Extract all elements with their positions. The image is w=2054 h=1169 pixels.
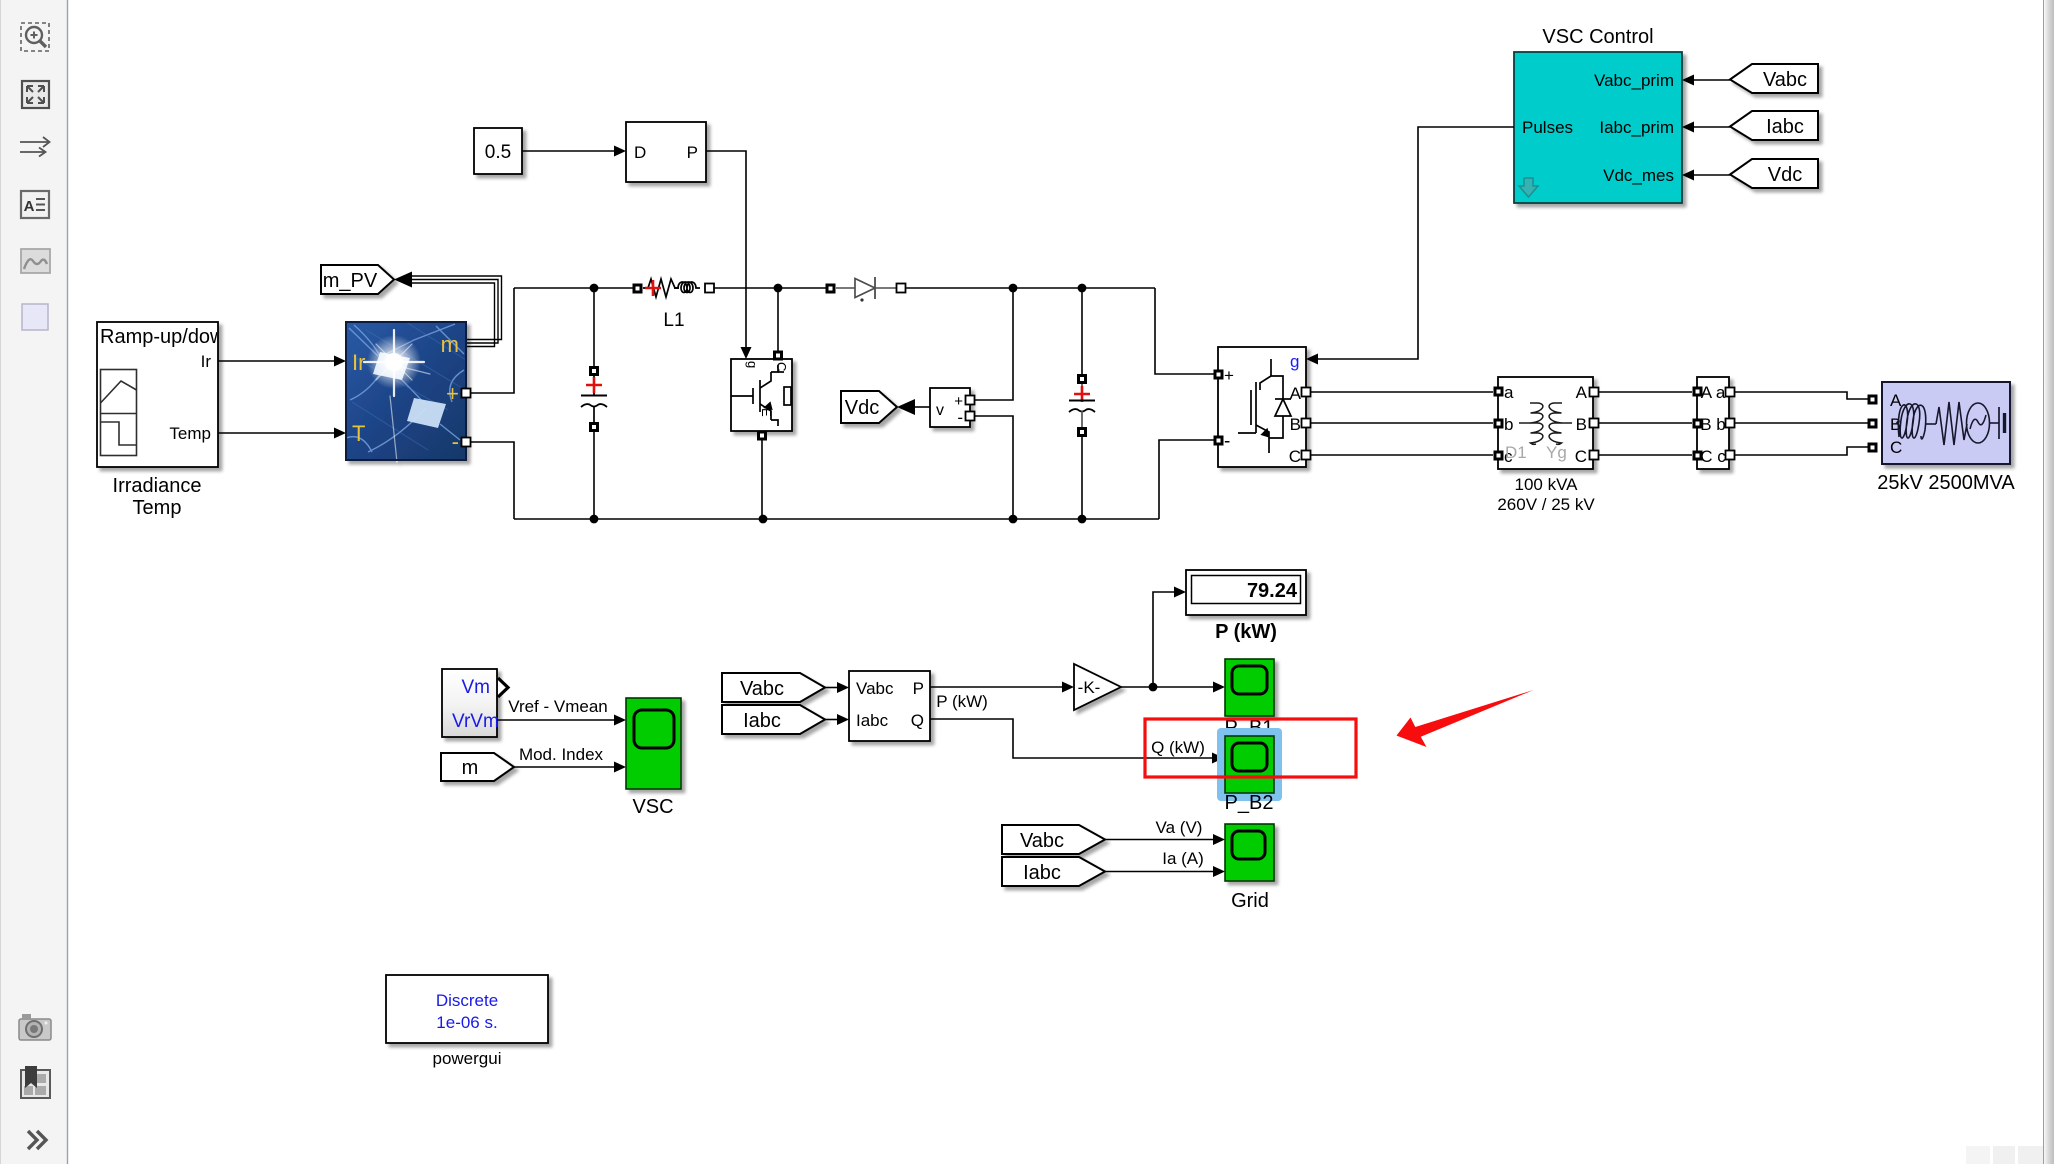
wire PV- down to bottom rail bbox=[471, 442, 515, 519]
svg-text:Vabc: Vabc bbox=[740, 678, 784, 700]
wire transformer B to meas B bbox=[1599, 422, 1693, 424]
wire v to Vdc tag bbox=[915, 406, 930, 408]
svg-text:P: P bbox=[913, 679, 924, 698]
svg-text:Vdc: Vdc bbox=[1768, 164, 1802, 186]
svg-text:Ramp-up/dow: Ramp-up/dow bbox=[100, 326, 225, 348]
svg-text:A: A bbox=[1890, 391, 1902, 410]
wire P to gain bbox=[930, 686, 1062, 688]
svg-text:Iabc: Iabc bbox=[743, 710, 781, 732]
port arrow into Vdc_mes bbox=[1682, 170, 1694, 181]
wire meas a to grid A bbox=[1735, 392, 1873, 399]
svg-text:P_B2: P_B2 bbox=[1225, 792, 1274, 814]
svg-text:v: v bbox=[936, 402, 944, 419]
svg-text:C c: C c bbox=[1700, 447, 1726, 466]
svg-text:Temp: Temp bbox=[133, 497, 182, 519]
svg-text:Iabc: Iabc bbox=[1766, 116, 1804, 138]
svg-text:100 kVA: 100 kVA bbox=[1514, 475, 1578, 494]
lens flare bbox=[367, 335, 421, 389]
left toolbar panel bbox=[0, 0, 68, 1164]
PQ measurement block bbox=[849, 671, 930, 741]
svg-text:g: g bbox=[745, 361, 760, 368]
top DC rail bbox=[514, 288, 1214, 374]
svg-text:Yg: Yg bbox=[1546, 443, 1567, 462]
svg-text:B: B bbox=[1576, 415, 1587, 434]
scope Grid bbox=[1225, 824, 1274, 881]
svg-text:P (kW): P (kW) bbox=[936, 692, 988, 711]
port arrow into Vabc_prim bbox=[1682, 75, 1694, 86]
subsystem D-P duty cycle bbox=[626, 122, 706, 182]
svg-text:C: C bbox=[1289, 447, 1301, 466]
wire Iabc to PQ bbox=[825, 719, 837, 721]
annotation red rectangle bbox=[1145, 719, 1356, 777]
three-phase VI measurement bbox=[1693, 377, 1735, 469]
svg-text:Iabc: Iabc bbox=[1023, 862, 1061, 884]
from tag Vdc (top right) bbox=[1730, 159, 1818, 188]
wire Pulses to inverter g bbox=[1318, 127, 1514, 359]
transformer T1 100kVA bbox=[1494, 377, 1599, 469]
subsystem U1 VSC Control bbox=[1514, 26, 1682, 203]
svg-text:D: D bbox=[634, 143, 646, 162]
svg-text:0.5: 0.5 bbox=[485, 142, 511, 163]
svg-text:powergui: powergui bbox=[433, 1049, 502, 1068]
three-phase inverter bridge bbox=[1214, 347, 1311, 467]
from tag Iabc (top right) bbox=[1730, 111, 1818, 140]
svg-text:A: A bbox=[1576, 383, 1588, 402]
svg-text:m: m bbox=[441, 332, 459, 357]
svg-text:Ia (A): Ia (A) bbox=[1162, 849, 1204, 868]
powergui block bbox=[386, 975, 548, 1043]
wire Ir to PV bbox=[218, 360, 334, 362]
svg-text:Q: Q bbox=[911, 711, 924, 730]
wire Vabc to Grid scope bbox=[1105, 839, 1213, 841]
svg-text:g: g bbox=[1290, 352, 1299, 371]
display P value bbox=[1186, 570, 1306, 615]
svg-text:+: + bbox=[1224, 366, 1234, 385]
scope P_B1 bbox=[1225, 659, 1274, 716]
toolbar icon: camera bbox=[19, 1014, 51, 1040]
wire VrVm to VSC bbox=[497, 719, 614, 721]
svg-text:Mod. Index: Mod. Index bbox=[519, 745, 604, 764]
PV - port bbox=[462, 438, 471, 447]
svg-text:Vabc: Vabc bbox=[1763, 69, 1807, 91]
svg-text:P (kW): P (kW) bbox=[1215, 621, 1277, 643]
annotation red arrow bbox=[1397, 690, 1534, 747]
wire inverter C to transformer c bbox=[1311, 454, 1494, 456]
svg-text:+: + bbox=[446, 381, 459, 406]
svg-text:B: B bbox=[1290, 415, 1301, 434]
wire Iabc tag to Iabc_prim bbox=[1694, 126, 1730, 128]
PV array block bbox=[346, 322, 466, 462]
from tag Vabc (top right) bbox=[1730, 64, 1818, 93]
junction nodes top rail bbox=[590, 284, 599, 293]
goto tag Vdc bbox=[841, 391, 897, 423]
wire inverter B to transformer b bbox=[1311, 422, 1494, 424]
from tag Iabc (PQ) bbox=[722, 705, 825, 734]
wire Vabc tag to Vabc_prim bbox=[1694, 79, 1730, 81]
svg-text:Iabc_prim: Iabc_prim bbox=[1599, 118, 1674, 137]
scope P_B2 bbox=[1225, 736, 1274, 793]
svg-text:-: - bbox=[452, 429, 459, 454]
PV + port bbox=[462, 389, 471, 398]
wire gain to P_B1 bbox=[1121, 686, 1213, 688]
svg-text:VrVm: VrVm bbox=[452, 711, 499, 732]
from tag Vabc (grid) bbox=[1002, 825, 1105, 854]
subsystem Vm/VrVm measure bbox=[442, 669, 508, 737]
svg-text:Vdc: Vdc bbox=[845, 397, 879, 419]
svg-text:m_PV: m_PV bbox=[323, 270, 378, 292]
wire P to IGBT gate bbox=[706, 151, 746, 347]
node after gain bbox=[1149, 683, 1158, 692]
capacitor C2 bbox=[1069, 288, 1095, 519]
scope P_B2 selection halo bbox=[1217, 728, 1282, 801]
wire Temp to PV bbox=[218, 432, 334, 434]
wire meas c to grid C bbox=[1735, 447, 1873, 455]
toolbar icon: zoom region bbox=[21, 23, 49, 51]
wire Q to P_B2 bbox=[930, 719, 1212, 758]
wire IGBT emitter to bottom rail bbox=[761, 441, 763, 520]
source block Irradiance/Temp ramp bbox=[97, 322, 225, 467]
svg-text:T: T bbox=[352, 421, 365, 446]
toolbar icon: image curve (disabled) bbox=[21, 249, 50, 273]
svg-text:79.24: 79.24 bbox=[1247, 580, 1298, 602]
svg-text:Grid: Grid bbox=[1231, 890, 1269, 912]
svg-text:a: a bbox=[1504, 383, 1514, 402]
goto tag m_PV bbox=[321, 265, 394, 294]
from tag Vabc (PQ) bbox=[722, 673, 825, 702]
wire v- to bottom rail node bbox=[975, 416, 1014, 519]
toolbar icon: annotation A bbox=[21, 191, 49, 218]
svg-text:Temp: Temp bbox=[169, 424, 211, 443]
svg-text:A: A bbox=[1290, 384, 1302, 403]
svg-text:b: b bbox=[1504, 415, 1513, 434]
wire PV+ to top rail bbox=[471, 288, 515, 393]
svg-text:C: C bbox=[1890, 438, 1902, 457]
constant 0.5 bbox=[474, 128, 522, 174]
port arrow into Iabc_prim bbox=[1682, 122, 1694, 133]
svg-text:VSC Control: VSC Control bbox=[1542, 26, 1653, 48]
wire Vdc tag to Vdc_mes bbox=[1694, 174, 1730, 176]
svg-text:P: P bbox=[687, 143, 698, 162]
from tag m bbox=[441, 753, 514, 781]
svg-text:B b: B b bbox=[1700, 415, 1726, 434]
wire Iabc to Grid scope bbox=[1105, 871, 1213, 873]
svg-text:Vref - Vmean: Vref - Vmean bbox=[508, 697, 608, 716]
scope VSC bbox=[626, 698, 681, 789]
wire 0.5 to D bbox=[522, 150, 614, 152]
wire PV m to m_PV (vector triple line) bbox=[412, 276, 502, 347]
svg-text:C: C bbox=[774, 362, 789, 371]
from tag Iabc (grid) bbox=[1002, 857, 1105, 886]
voltage measurement v bbox=[930, 388, 975, 427]
svg-text:Vabc: Vabc bbox=[856, 679, 894, 698]
svg-text:Vabc: Vabc bbox=[1020, 830, 1064, 852]
svg-text:m: m bbox=[462, 757, 479, 779]
toolbar icon: pale square bbox=[22, 304, 48, 330]
wire v+ to top rail node bbox=[975, 288, 1014, 400]
panel glints bbox=[373, 352, 410, 380]
wire top rail to IGBT collector bbox=[777, 288, 779, 351]
svg-text:Ir: Ir bbox=[352, 350, 365, 375]
right scrollbar bbox=[2043, 0, 2054, 1164]
wire m to VSC bbox=[514, 766, 614, 768]
grid source 25kV bbox=[1868, 382, 2011, 464]
capacitor C1 bbox=[581, 288, 607, 519]
bottom-right status corner bbox=[1966, 1146, 2043, 1164]
wire transformer C to meas C bbox=[1599, 454, 1693, 456]
arrow into Vdc tag bbox=[897, 399, 915, 415]
svg-text:A: A bbox=[24, 198, 35, 215]
svg-text:C: C bbox=[1575, 447, 1587, 466]
svg-text:1e-06 s.: 1e-06 s. bbox=[436, 1013, 497, 1032]
svg-text:-K-: -K- bbox=[1078, 678, 1101, 697]
series RL branch L1 bbox=[633, 279, 715, 331]
svg-text:A a: A a bbox=[1701, 383, 1726, 402]
svg-text:D1: D1 bbox=[1505, 443, 1527, 462]
toolbar icon: layout bbox=[21, 1066, 50, 1098]
svg-text:260V / 25 kV: 260V / 25 kV bbox=[1497, 495, 1595, 514]
IGBT chopper switch Q1 (rotated) bbox=[731, 351, 792, 441]
svg-text:Vm: Vm bbox=[462, 677, 491, 698]
svg-text:Ir: Ir bbox=[201, 352, 212, 371]
svg-text:-: - bbox=[957, 408, 963, 427]
toolbar icon: signal arrows bbox=[20, 137, 50, 157]
toolbar icon: fit to view bbox=[22, 81, 49, 108]
svg-text:L1: L1 bbox=[663, 310, 684, 331]
svg-text:Iabc: Iabc bbox=[856, 711, 889, 730]
svg-text:Va (V): Va (V) bbox=[1156, 818, 1203, 837]
bottom DC rail bbox=[514, 440, 1214, 519]
svg-text:25kV 2500MVA: 25kV 2500MVA bbox=[1877, 472, 2015, 494]
svg-text:Pulses: Pulses bbox=[1522, 118, 1573, 137]
wire meas b to grid B bbox=[1735, 422, 1873, 424]
svg-text:Discrete: Discrete bbox=[436, 991, 498, 1010]
wire node to display bbox=[1153, 592, 1174, 687]
diode D2 on top rail bbox=[826, 277, 906, 302]
wire transformer A to meas A bbox=[1599, 391, 1693, 393]
wire Vabc to PQ bbox=[825, 687, 837, 689]
svg-text:Irradiance: Irradiance bbox=[113, 475, 202, 497]
gain -K- bbox=[1074, 664, 1121, 710]
svg-text:-: - bbox=[1224, 431, 1230, 452]
svg-text:Vabc_prim: Vabc_prim bbox=[1594, 71, 1674, 90]
arrow into m_PV bbox=[394, 272, 412, 288]
svg-text:VSC: VSC bbox=[632, 796, 673, 818]
junction nodes bottom rail bbox=[590, 515, 599, 524]
svg-text:Q (kW): Q (kW) bbox=[1151, 738, 1205, 757]
svg-text:Vdc_mes: Vdc_mes bbox=[1603, 166, 1674, 185]
wire inverter A to transformer a bbox=[1311, 391, 1494, 393]
toolbar icon: chevrons expand bbox=[28, 1131, 46, 1149]
